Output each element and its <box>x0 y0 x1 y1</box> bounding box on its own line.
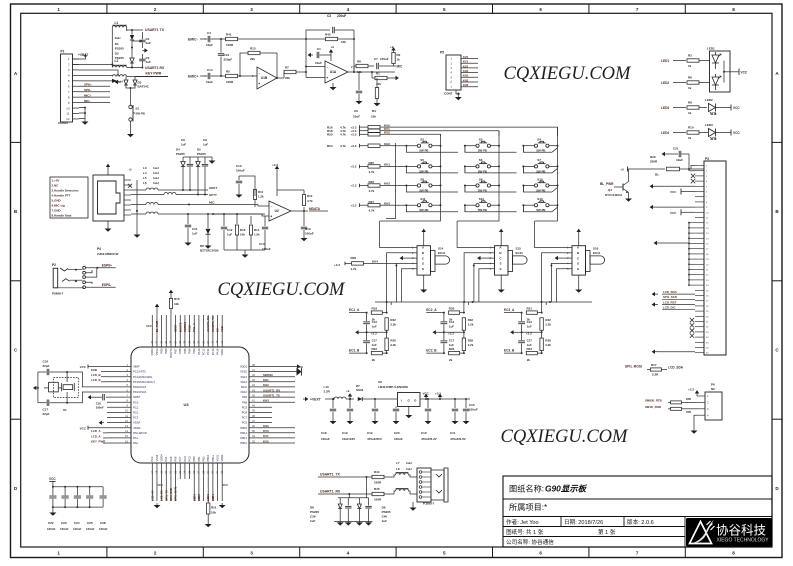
svg-text:8: 8 <box>732 551 735 556</box>
svg-text:KH1: KH1 <box>384 163 390 167</box>
svg-text:2.NC: 2.NC <box>52 184 60 188</box>
svg-text:C10: C10 <box>421 431 427 435</box>
audio jack P5 PJ393-7 <box>417 468 431 502</box>
svg-text:R12: R12 <box>307 194 313 198</box>
svg-text:HDET: HDET <box>209 186 217 190</box>
resistor R44 100R <box>372 475 384 478</box>
svg-text:EC3_B: EC3_B <box>504 348 515 352</box>
svg-text:2k: 2k <box>527 358 531 362</box>
svg-text:100uF: 100uF <box>469 408 478 412</box>
encoder pin C ground flag <box>558 257 563 259</box>
MCU U3 body <box>131 347 249 463</box>
svg-text:1uF: 1uF <box>192 232 198 236</box>
svg-text:10k: 10k <box>341 40 346 44</box>
svg-text:3.Handle Detection: 3.Handle Detection <box>52 189 79 193</box>
power arrow top pin2 <box>156 307 158 315</box>
svg-text:+5: +5 <box>621 168 625 172</box>
wire left rail <box>111 30 113 67</box>
svg-text:U1B: U1B <box>261 76 268 80</box>
svg-text:2.2R: 2.2R <box>652 373 659 377</box>
svg-text:CQXIEGU.COM: CQXIEGU.COM <box>504 64 633 84</box>
svg-text:PA14: PA14 <box>215 348 219 355</box>
svg-text:U1A: U1A <box>330 70 337 74</box>
svg-text:所属项目:*: 所属项目:* <box>509 502 548 512</box>
wire top USART1 TX <box>127 29 143 31</box>
svg-text:2k: 2k <box>449 358 453 362</box>
P3 ground flags upper <box>656 185 695 187</box>
svg-text:C12: C12 <box>227 228 233 232</box>
wire RX drop to clamp bus <box>348 493 350 495</box>
border column ticks bottom <box>106 547 108 558</box>
MCU top pins <box>151 315 153 347</box>
svg-text:22R: 22R <box>686 397 691 401</box>
svg-text:LCD_RS: LCD_RS <box>160 490 164 501</box>
svg-text:BL_PWR: BL_PWR <box>155 321 159 332</box>
svg-text:+3.3: +3.3 <box>448 331 454 335</box>
capacitor C12b 1uF <box>223 214 225 226</box>
svg-text:5: 5 <box>443 7 446 12</box>
wire row bypass <box>465 166 517 173</box>
svg-text:PC1: PC1 <box>133 405 139 409</box>
svg-text:10uF/16V: 10uF/16V <box>342 437 355 441</box>
svg-text:VCC: VCC <box>80 427 87 431</box>
svg-text:PC0: PC0 <box>133 400 139 404</box>
svg-text:S5: S5 <box>420 158 424 162</box>
svg-text:SPK+: SPK+ <box>84 82 92 86</box>
svg-text:PB3: PB3 <box>192 348 196 354</box>
svg-text:PA3: PA3 <box>150 456 154 461</box>
wire U1B out <box>277 77 284 79</box>
svg-text:LED3: LED3 <box>705 123 713 127</box>
P4 pin junction dot <box>136 210 138 212</box>
encoder S16 ground <box>578 275 580 287</box>
diode cap junction dots <box>182 189 184 191</box>
svg-text:PA9: PA9 <box>242 395 247 399</box>
encoder pin C ground flag <box>481 257 486 259</box>
svg-text:PA13: PA13 <box>241 375 248 379</box>
svg-text:L1: L1 <box>115 21 119 25</box>
svg-text:MIC: MIC <box>209 201 215 205</box>
wire row bypass <box>406 205 458 212</box>
op-amp U2 <box>269 201 291 221</box>
svg-text:PB13: PB13 <box>240 436 247 440</box>
svg-text:C6: C6 <box>354 109 358 113</box>
U2 output MDATA <box>291 210 308 212</box>
resistor R13 10k <box>236 214 238 224</box>
switch S11 SW-PB <box>417 204 420 207</box>
svg-text:470uF/6.3V: 470uF/6.3V <box>450 437 466 441</box>
svg-text:BL_PWR: BL_PWR <box>600 182 614 186</box>
svg-text:MIC-: MIC- <box>84 99 91 103</box>
zener D6 BZT52C3V9S <box>207 214 209 228</box>
svg-text:VSS3: VSS3 <box>155 348 159 355</box>
svg-text:KH4: KH4 <box>372 259 378 263</box>
encoder S14 shaft <box>431 251 436 272</box>
svg-text:PS205: PS205 <box>382 510 391 514</box>
svg-text:USART1 RX: USART1 RX <box>145 66 165 70</box>
MCU bottom ground <box>156 503 158 505</box>
svg-text:VCC: VCC <box>146 324 152 328</box>
svg-text:R32: R32 <box>468 318 474 322</box>
P1 pin5 wire with arrow <box>79 80 112 82</box>
svg-text:R44: R44 <box>374 470 380 474</box>
svg-text:KH0: KH0 <box>384 142 390 146</box>
resistor R2 1k <box>392 53 395 64</box>
svg-text:BOOT0: BOOT0 <box>169 348 173 358</box>
svg-text:1: 1 <box>57 551 60 556</box>
svg-text:R5: R5 <box>226 70 230 74</box>
svg-text:1uF: 1uF <box>181 143 186 147</box>
switch S12 SW-PB <box>476 204 479 207</box>
svg-text:KH: KH <box>216 328 220 332</box>
P3 ground flag 2 <box>656 206 695 208</box>
P3 VCC pin 2 <box>681 211 695 213</box>
svg-text:R11: R11 <box>258 190 264 194</box>
svg-text:VSSA: VSSA <box>133 421 140 425</box>
svg-text:+3.3: +3.3 <box>526 331 532 335</box>
svg-text:+3.3: +3.3 <box>351 133 357 137</box>
svg-text:图纸名称:: 图纸名称: <box>509 484 544 494</box>
svg-text:HPTT: HPTT <box>209 193 217 197</box>
svg-text:VBAT: VBAT <box>133 365 140 369</box>
ground below P1 <box>84 119 86 122</box>
encoder S16 shaft <box>586 251 591 272</box>
svg-text:PB2: PB2 <box>201 456 205 462</box>
svg-text:4.Handle PTT: 4.Handle PTT <box>52 194 71 198</box>
svg-text:10uF: 10uF <box>206 80 213 84</box>
svg-text:8: 8 <box>732 7 735 12</box>
svg-text:C11: C11 <box>192 227 198 231</box>
svg-text:D8: D8 <box>310 506 314 510</box>
P2 contact arms <box>60 268 68 271</box>
svg-text:D6: D6 <box>200 244 204 248</box>
svg-text:PA4: PA4 <box>164 456 168 461</box>
switch S5 SW-PB <box>417 165 420 168</box>
svg-text:R20: R20 <box>449 306 455 310</box>
resistor R12 4.7k <box>303 207 305 211</box>
encoder S15 shaft <box>508 251 513 272</box>
svg-text:EMIC-: EMIC- <box>188 38 198 42</box>
border column ticks top <box>106 4 108 13</box>
resistor R1 10k <box>375 76 387 79</box>
capacitor C19 10uF/16V <box>349 399 351 408</box>
svg-text:PC2: PC2 <box>133 411 139 415</box>
wire row bypass <box>523 146 552 153</box>
svg-text:100uF: 100uF <box>394 437 403 441</box>
svg-text:PB8: PB8 <box>164 348 168 354</box>
group3 bus stub <box>545 302 547 305</box>
svg-text:+3.3: +3.3 <box>351 144 357 148</box>
svg-text:C4: C4 <box>207 31 211 35</box>
svg-text:6: 6 <box>539 551 542 556</box>
capacitor C13 group2 <box>443 313 445 322</box>
svg-text:+9: +9 <box>390 45 394 49</box>
svg-text:PS205: PS205 <box>310 510 319 514</box>
svg-text:R28: R28 <box>351 256 357 260</box>
capacitor C16b 100nF NRST <box>106 396 107 398</box>
svg-text:P3: P3 <box>705 157 709 161</box>
group1 bus stub <box>390 302 392 305</box>
svg-text:PC13-RTC: PC13-RTC <box>133 370 146 374</box>
svg-text:R13: R13 <box>250 47 256 51</box>
svg-text:L3: L3 <box>143 166 147 170</box>
capacitor C13 group1 <box>366 313 368 322</box>
capacitor C17 group2 <box>443 332 445 340</box>
svg-text:C13: C13 <box>224 53 230 57</box>
svg-text:PA1: PA1 <box>133 436 138 440</box>
svg-text:R45: R45 <box>374 487 380 491</box>
svg-text:PB10: PB10 <box>206 454 210 461</box>
P3 lower ground flags <box>655 293 658 295</box>
svg-text:PC6: PC6 <box>242 421 248 425</box>
svg-text:KH1: KH1 <box>263 378 269 382</box>
svg-text:ESP8-: ESP8- <box>102 283 111 287</box>
svg-text:图纸号: 共 1 张: 图纸号: 共 1 张 <box>506 528 544 536</box>
MCU left pins <box>107 366 131 368</box>
svg-text:100uF: 100uF <box>262 247 271 251</box>
svg-text:LED3: LED3 <box>661 106 669 110</box>
capacitor C13 220pF <box>220 39 222 53</box>
svg-text:KH0: KH0 <box>263 424 269 428</box>
group2 bus stub <box>468 302 470 305</box>
svg-text:SWDNS: SWDNS <box>183 322 187 332</box>
svg-text:EMIC+: EMIC+ <box>188 75 198 79</box>
svg-text:CON12: CON12 <box>58 121 68 125</box>
svg-text:LED4: LED4 <box>211 494 215 501</box>
svg-text:L4: L4 <box>143 171 147 175</box>
inductor row MIC <box>131 204 146 206</box>
svg-text:L7: L7 <box>396 461 400 465</box>
svg-text:VDDA: VDDA <box>133 426 141 430</box>
svg-text:日期: 2018/7/26: 日期: 2018/7/26 <box>564 519 603 526</box>
svg-text:L2: L2 <box>115 59 119 63</box>
svg-text:3: 3 <box>250 7 253 12</box>
svg-text:3uH: 3uH <box>117 80 123 84</box>
wire TX drop to clamp bus <box>366 476 368 478</box>
svg-text:D4: D4 <box>176 148 180 152</box>
svg-text:L6: L6 <box>143 181 147 185</box>
svg-text:100uF: 100uF <box>380 57 389 61</box>
switch S2 SW-PB <box>417 144 420 147</box>
svg-text:C17: C17 <box>43 408 49 412</box>
svg-text:C39: C39 <box>310 515 316 519</box>
jack sleeve symbol <box>431 470 444 500</box>
svg-text:10uF: 10uF <box>676 158 683 162</box>
svg-text:PB5: PB5 <box>183 348 187 354</box>
divider resistors group3 <box>541 302 543 313</box>
svg-text:C13: C13 <box>527 320 533 324</box>
crystal X1 circuit <box>54 378 79 398</box>
svg-text:100R: 100R <box>374 498 382 502</box>
svg-text:10k: 10k <box>211 511 216 515</box>
svg-text:BL-: BL- <box>655 173 660 177</box>
svg-text:LED3: LED3 <box>206 494 210 501</box>
svg-text:KH2: KH2 <box>263 383 269 387</box>
svg-text:S9: S9 <box>479 177 483 181</box>
svg-text:1uH: 1uH <box>406 461 412 465</box>
svg-text:S3: S3 <box>479 138 483 142</box>
P3 bus ground flag <box>660 242 689 244</box>
P3 no-connect lower <box>690 318 694 322</box>
svg-text:KV2: KV2 <box>263 439 269 443</box>
svg-text:PC3: PC3 <box>133 416 139 420</box>
svg-text:C3: C3 <box>327 14 331 18</box>
border row ticks right <box>772 141 782 143</box>
svg-text:作者: Jet Yoo: 作者: Jet Yoo <box>506 518 539 526</box>
capacitor C12 470uF/25V <box>374 399 376 408</box>
svg-text:+VBAT: +VBAT <box>78 53 88 57</box>
svg-text:4.7k: 4.7k <box>307 199 313 203</box>
capacitor C6 10uF <box>358 72 360 90</box>
svg-text:KH3: KH3 <box>463 83 469 87</box>
switch S6 SW-PB <box>476 165 479 168</box>
capacitor C11 470uF/6.3V <box>454 399 456 408</box>
svg-text:S13: S13 <box>537 197 543 201</box>
svg-text:PCL_A: PCL_A <box>192 323 196 332</box>
ground flag group1 <box>359 331 362 333</box>
P3 no-connect X pins <box>691 174 695 178</box>
op-amp U1B <box>257 67 277 89</box>
divider resistors group1 <box>386 302 388 313</box>
svg-text:NRST: NRST <box>133 395 141 399</box>
svg-text:PJ393-7: PJ393-7 <box>423 502 435 506</box>
svg-text:C9: C9 <box>203 138 207 142</box>
capacitor C17 group3 <box>521 332 523 340</box>
svg-text:220pF: 220pF <box>224 58 233 62</box>
svg-text:+3.3: +3.3 <box>688 388 694 392</box>
svg-text:10k: 10k <box>174 302 179 306</box>
ground flag group3 <box>514 331 517 333</box>
svg-text:5: 5 <box>443 551 446 556</box>
svg-text:100nF: 100nF <box>60 527 69 531</box>
svg-text:2.2k: 2.2k <box>468 343 474 347</box>
connector P2 jack <box>53 268 58 288</box>
svg-text:SPI1_SCK: SPI1_SCK <box>663 295 678 299</box>
svg-text:100R: 100R <box>374 481 382 485</box>
svg-text:22R: 22R <box>686 410 691 414</box>
encoder S15 ground <box>500 275 502 287</box>
svg-text:1k: 1k <box>688 136 692 140</box>
switch S4 SW-PB <box>534 144 537 147</box>
svg-text:+: + <box>270 214 272 218</box>
capacitor C4 10uF <box>207 36 209 42</box>
svg-text:PA5: PA5 <box>169 456 173 461</box>
ground below P5 <box>455 90 457 94</box>
svg-text:EC11: EC11 <box>516 251 524 255</box>
resistor R41 100R <box>226 37 238 40</box>
svg-text:KH3: KH3 <box>263 399 269 403</box>
svg-text:VCC: VCC <box>670 211 677 215</box>
inductor row HDET <box>131 189 146 191</box>
svg-text:S: S <box>422 262 424 266</box>
svg-text:SS34: SS34 <box>356 388 364 392</box>
svg-text:R21: R21 <box>527 306 533 310</box>
svg-text:2.2k: 2.2k <box>390 323 396 327</box>
encoder S14 power <box>423 236 425 246</box>
svg-text:VDD2: VDD2 <box>240 365 248 369</box>
svg-text:VCC: VCC <box>223 483 229 487</box>
svg-text:R15: R15 <box>174 297 180 301</box>
svg-text:S6: S6 <box>479 158 483 162</box>
svg-text:C40: C40 <box>382 515 388 519</box>
net label MIC <box>391 65 396 67</box>
svg-text:100nF: 100nF <box>73 527 82 531</box>
svg-text:PC7: PC7 <box>242 416 248 420</box>
wire row bypass <box>523 205 552 212</box>
svg-text:220R: 220R <box>650 160 658 164</box>
svg-text:P2: P2 <box>52 263 56 267</box>
svg-text:C19: C19 <box>342 431 348 435</box>
svg-text:KH1: KH1 <box>463 74 469 78</box>
svg-text:PB15: PB15 <box>240 426 247 430</box>
svg-text:LM1117MP-3.3/NOPB: LM1117MP-3.3/NOPB <box>378 385 409 389</box>
svg-text:1uF: 1uF <box>382 519 388 523</box>
svg-text:470uF/25V: 470uF/25V <box>367 437 382 441</box>
wire row bypass <box>406 166 458 173</box>
inductor on KEY PWR line <box>112 75 126 77</box>
P4 power arrow <box>107 167 109 171</box>
svg-text:P1: P1 <box>61 50 65 54</box>
svg-text:LCD_D/C: LCD_D/C <box>663 306 676 310</box>
svg-text:PA2: PA2 <box>133 441 138 445</box>
svg-text:1uH: 1uH <box>153 176 159 180</box>
svg-text:U3: U3 <box>183 402 189 407</box>
power flag right of R1 <box>393 77 396 79</box>
svg-text:100uF: 100uF <box>236 169 245 173</box>
svg-text:BAT54C: BAT54C <box>138 85 150 89</box>
ground flag group2 <box>436 331 439 333</box>
P4 pin2 no-connect X <box>128 184 132 188</box>
svg-text:USART1_TX: USART1_TX <box>320 472 341 476</box>
svg-text:4: 4 <box>347 551 350 556</box>
svg-text:KH3: KH3 <box>384 201 390 205</box>
encoder S14 EC11 <box>417 246 431 275</box>
svg-text:U6: U6 <box>378 380 382 384</box>
wire row bypass <box>406 186 458 193</box>
svg-text:C23: C23 <box>61 521 67 525</box>
svg-text:KV2: KV2 <box>384 131 390 135</box>
svg-text:LCD_A0: LCD_A0 <box>150 490 154 501</box>
svg-text:SPI1_OUT1: SPI1_OUT1 <box>174 486 178 501</box>
svg-text:C21: C21 <box>673 147 679 151</box>
svg-text:+3.3: +3.3 <box>334 263 340 267</box>
encoder S15 power <box>500 236 502 246</box>
svg-text:C15: C15 <box>469 403 475 407</box>
ferrite bead row HPTT <box>131 194 164 196</box>
encoder horizontal bus <box>375 301 592 303</box>
svg-text:版本: 2.0.6: 版本: 2.0.6 <box>627 518 654 526</box>
svg-text:10k: 10k <box>371 115 376 119</box>
svg-text:R24: R24 <box>527 347 533 351</box>
svg-text:R38: R38 <box>390 338 396 342</box>
Q1 ground <box>628 196 630 199</box>
svg-text:LED4: LED4 <box>661 131 669 135</box>
svg-text:R2: R2 <box>397 53 401 57</box>
svg-text:7: 7 <box>636 551 639 556</box>
P6 ground <box>694 415 697 428</box>
svg-text:R10: R10 <box>688 126 694 130</box>
capacitor C14b 100uF <box>264 216 266 226</box>
svg-text:1uH: 1uH <box>153 171 159 175</box>
svg-text:100nF: 100nF <box>47 527 56 531</box>
svg-text:R6: R6 <box>688 76 692 80</box>
svg-text:3: 3 <box>250 551 253 556</box>
svg-text:VCC: VCC <box>670 190 677 194</box>
svg-text:C24: C24 <box>74 521 80 525</box>
svg-text:协谷科技: 协谷科技 <box>716 523 767 538</box>
svg-text:R38: R38 <box>545 338 551 342</box>
svg-text:4.7k: 4.7k <box>369 189 375 193</box>
